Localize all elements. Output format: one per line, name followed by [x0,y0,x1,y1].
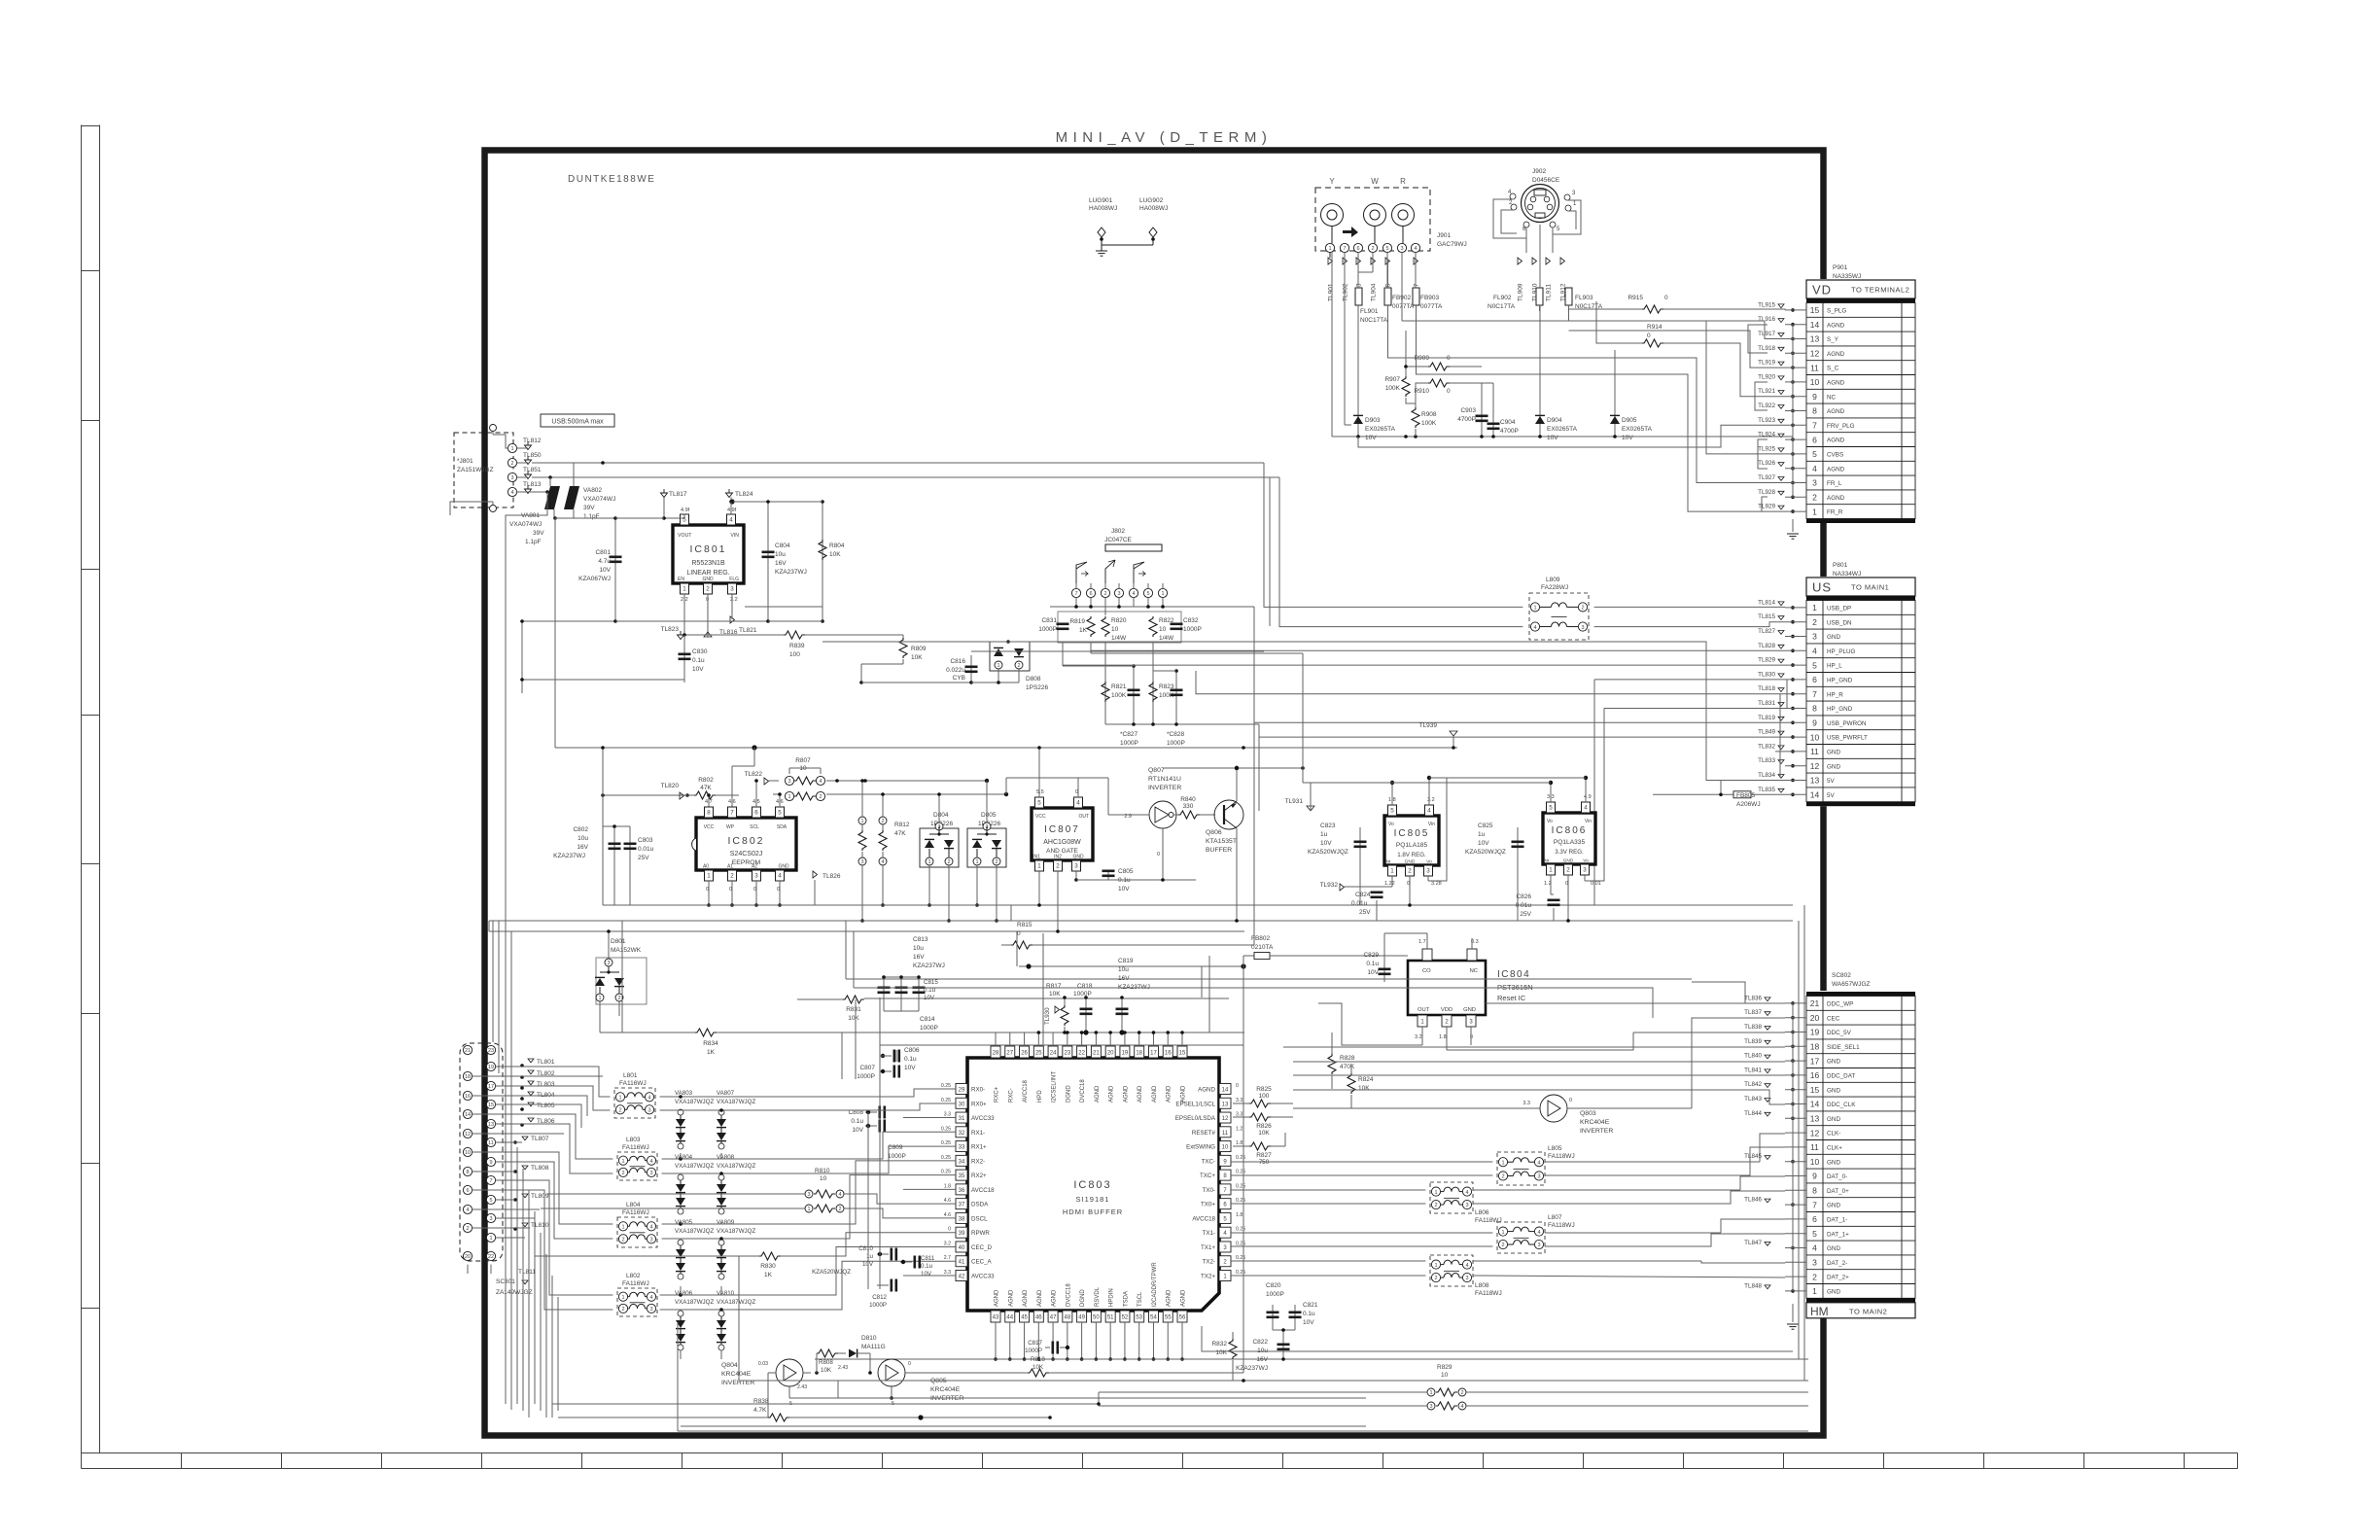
svg-text:R834: R834 [703,1040,718,1047]
svg-text:1000P: 1000P [1183,626,1202,633]
testpoints TL901-TL907 under J901 [1328,258,1333,264]
svg-text:2: 2 [1371,246,1374,252]
svg-text:5.5: 5.5 [1036,789,1044,795]
transistor Q804 KRC404E inverter [776,1359,803,1386]
wire R914 net to VD rows [1596,301,1642,343]
svg-text:21: 21 [1093,1051,1100,1057]
svg-text:10V: 10V [1622,435,1633,441]
svg-text:TL847: TL847 [1744,1240,1762,1246]
svg-text:WP: WP [726,824,735,830]
wire R907 R908 net [1405,331,1407,376]
wire left trunk lines to IC803 [546,1193,804,1195]
vertical 893 trunk [867,1112,869,1126]
svg-text:0.01: 0.01 [1591,881,1601,887]
svg-text:VA806: VA806 [675,1290,693,1297]
bottom title-block strip [82,1453,2238,1469]
svg-text:GAC79WJ: GAC79WJ [1437,241,1467,248]
svg-text:TL823: TL823 [661,626,680,633]
svg-text:C816: C816 [950,658,965,665]
svg-text:AGND: AGND [1827,380,1845,387]
svg-text:TXC+: TXC+ [1200,1172,1215,1179]
J902 outer pins [1510,193,1516,199]
vertical trunks right of J802 [1253,607,1255,945]
svg-text:23: 23 [1065,1051,1071,1057]
svg-text:TL833: TL833 [1758,757,1775,764]
svg-text:14: 14 [1222,1088,1229,1094]
svg-text:TL925: TL925 [1758,445,1775,452]
svg-text:VA802: VA802 [583,487,602,494]
capacitor C819 10u [1121,997,1123,1032]
svg-text:I2CSEL/INT: I2CSEL/INT [1052,1071,1058,1102]
svg-text:C818: C818 [1077,983,1093,990]
wire rail 1062 dots [1083,1030,1088,1034]
svg-text:1: 1 [598,996,601,1001]
svg-text:EN: EN [678,577,684,582]
svg-text:4700P: 4700P [1500,428,1519,435]
transistor Q806 KTA1535T buffer [1214,800,1243,829]
svg-text:1000P: 1000P [1073,991,1092,997]
svg-text:4.9: 4.9 [1584,794,1592,800]
svg-text:0.01u: 0.01u [1516,902,1532,909]
wire IC802 pin5 SDA [779,794,781,807]
svg-text:AGND: AGND [1023,1289,1029,1307]
svg-text:3: 3 [1429,1404,1432,1410]
svg-text:IC807: IC807 [1044,824,1080,835]
svg-text:45: 45 [1021,1315,1028,1321]
wire Q806 1398 rail verticals [1242,966,1244,1032]
resistor R910 0 [1428,379,1450,387]
svg-text:R840: R840 [1180,796,1196,803]
svg-text:10: 10 [1222,1145,1229,1151]
svg-text:2.43: 2.43 [797,1384,807,1390]
wire R807 outputs [826,780,987,782]
svg-text:GND: GND [1827,763,1840,770]
resistor R840 330 [1178,811,1200,819]
svg-text:IC803: IC803 [1073,1179,1111,1191]
svg-text:0077TA: 0077TA [1392,303,1415,310]
svg-text:1: 1 [1812,1286,1817,1296]
svg-text:4: 4 [881,859,884,865]
svg-text:16: 16 [1165,1051,1172,1057]
svg-text:NC: NC [1470,968,1478,974]
svg-text:39V: 39V [533,530,544,537]
wire D804 nets [938,794,940,822]
svg-text:1: 1 [1501,1160,1504,1166]
wire R829 nets [1099,1391,1426,1393]
svg-text:0.01u: 0.01u [1351,900,1368,907]
svg-text:R: R [1400,177,1406,186]
IC IC804 PST3615N reset IC [1408,961,1486,1015]
svg-text:0.25: 0.25 [1236,1170,1245,1175]
svg-text:RPWR: RPWR [971,1230,990,1237]
svg-text:AGND: AGND [1167,1085,1172,1102]
svg-text:19: 19 [1122,1051,1129,1057]
resistor R821 100K [1104,643,1106,724]
IC IC805 PQ1LA185 1.8V regulator [1384,816,1439,865]
svg-text:A206WJ: A206WJ [1736,801,1761,808]
svg-text:3: 3 [754,873,758,880]
svg-text:C809: C809 [888,1144,903,1151]
svg-text:Vo: Vo [1583,858,1589,864]
svg-text:USB_PWRON: USB_PWRON [1827,720,1867,727]
wire TXC pair to CLK rows [1231,1161,1492,1163]
svg-text:JC047CE: JC047CE [1104,537,1132,543]
svg-text:6: 6 [1812,1214,1817,1224]
svg-text:11: 11 [1810,1142,1819,1152]
svg-text:0: 0 [1647,332,1651,339]
capacitor C812 1000P [877,1284,889,1286]
svg-text:FL901: FL901 [1360,308,1379,315]
resistor R839 100 [684,634,784,636]
svg-text:25V: 25V [638,855,649,861]
svg-text:VXA187WJQZ: VXA187WJQZ [675,1299,714,1306]
svg-text:3.2: 3.2 [1427,797,1435,803]
svg-text:VA803: VA803 [675,1090,693,1097]
svg-text:TXC-: TXC- [1202,1158,1215,1165]
svg-text:8: 8 [1812,406,1817,416]
svg-text:1000P: 1000P [1038,626,1057,633]
svg-text:GND: GND [1405,859,1416,865]
wire choke outputs to IC803 RX pins [660,1089,956,1097]
svg-text:10K: 10K [1032,1364,1044,1371]
svg-text:TL826: TL826 [822,873,841,880]
svg-text:CLK+: CLK+ [1827,1145,1842,1152]
svg-text:47: 47 [1050,1315,1057,1321]
svg-text:TL807: TL807 [531,1136,549,1142]
wire USB_DP net [1264,463,1522,607]
wire IC803 left pin stubs [903,1117,956,1119]
rail 1472 [678,1430,1808,1432]
svg-text:0: 0 [908,1361,911,1367]
svg-text:FA116WJ: FA116WJ [622,1209,649,1216]
svg-text:HP_L: HP_L [1827,663,1842,670]
svg-text:8: 8 [1812,1186,1817,1196]
svg-text:FL903: FL903 [1575,295,1593,301]
svg-text:C832: C832 [1183,617,1199,624]
svg-text:AGND: AGND [1827,466,1845,472]
wire right-side verticals under tables [1798,921,1800,1359]
svg-text:FA116WJ: FA116WJ [619,1080,647,1087]
svg-text:R829: R829 [1437,1364,1452,1371]
vertical trunk x1340 [1302,653,1304,783]
svg-text:RX0-: RX0- [971,1087,985,1094]
svg-text:1: 1 [975,859,978,865]
svg-text:17: 17 [1810,1056,1820,1066]
capacitor C821 0.1u [1294,1305,1296,1330]
svg-text:RX1+: RX1+ [971,1144,987,1151]
svg-text:0.1u: 0.1u [692,657,705,664]
wire TX2 pair to DAT2 rows [1231,1260,1425,1262]
wire lower long rails [681,1425,1366,1427]
svg-text:9: 9 [1812,392,1817,402]
svg-text:20: 20 [465,1254,471,1260]
long verticals from top buses [1269,477,1271,626]
svg-text:2: 2 [881,819,884,824]
wire HP_GND2 line [1604,708,1785,710]
svg-text:2: 2 [1581,606,1584,612]
arrow marker in J901 [1343,227,1358,237]
svg-text:W: W [1371,177,1379,186]
svg-text:7: 7 [1812,421,1817,431]
svg-text:10V: 10V [1303,1319,1314,1326]
svg-text:1K: 1K [764,1272,773,1278]
resistor R828 470K [1328,1054,1336,1074]
svg-text:VXA074WJ: VXA074WJ [583,496,615,503]
capacitor C806 0.1u [895,1050,897,1062]
svg-text:2: 2 [466,1226,469,1232]
svg-text:C822: C822 [1252,1339,1268,1346]
svg-text:VXA187WJQZ: VXA187WJQZ [717,1299,755,1306]
capacitor C817 1000P [1045,1347,1050,1348]
connector table P801 US TO MAIN1 [1804,577,1917,806]
wire bottom rail 1438 [838,1397,1366,1399]
svg-text:11: 11 [1810,747,1819,756]
resistor R809 10K [899,638,907,658]
capacitor C818 1000P [1085,997,1087,1032]
svg-text:TL815: TL815 [1758,613,1775,620]
svg-text:IC802: IC802 [727,835,764,847]
svg-text:1000P: 1000P [1266,1291,1284,1298]
svg-text:FB805: FB805 [1736,792,1756,799]
svg-text:C820: C820 [1266,1282,1281,1289]
svg-text:1: 1 [1328,246,1331,252]
svg-text:0: 0 [729,887,732,892]
wire USB_PWRON line [1254,607,1785,722]
svg-text:D805: D805 [981,812,997,819]
ferrite FB903 0077TA [1413,288,1419,305]
svg-text:TO MAIN2: TO MAIN2 [1849,1307,1887,1315]
svg-text:2: 2 [838,1207,841,1212]
svg-text:10: 10 [1111,626,1119,633]
svg-text:TSDA: TSDA [1123,1291,1129,1307]
svg-text:1: 1 [1390,868,1394,875]
svg-text:IC805: IC805 [1394,828,1430,839]
varistor VA801 [544,486,560,509]
svg-text:HA008WJ: HA008WJ [1089,205,1117,212]
wire J802 pins to bus 624 [1050,606,1254,608]
svg-text:3: 3 [1812,1258,1817,1268]
capacitor C811 0.1u [900,1261,912,1263]
svg-text:23: 23 [488,1048,494,1054]
svg-text:2.43: 2.43 [838,1365,848,1371]
svg-text:C812: C812 [872,1294,887,1301]
wire HM gnd trunk [1792,1003,1794,1291]
svg-text:GND: GND [778,864,789,870]
svg-text:TL922: TL922 [1758,402,1775,409]
svg-text:1u: 1u [866,1253,873,1260]
svg-text:3: 3 [1812,632,1817,642]
svg-text:0: 0 [753,887,756,892]
svg-text:1.8: 1.8 [944,1183,951,1189]
svg-text:1.7: 1.7 [1418,939,1426,945]
svg-text:L804: L804 [626,1202,641,1208]
svg-text:Q806: Q806 [1206,829,1222,836]
svg-text:4: 4 [1427,808,1431,815]
svg-text:Vo: Vo [1426,859,1432,865]
svg-text:R907: R907 [1384,376,1400,383]
svg-text:TL839: TL839 [1744,1038,1762,1045]
svg-text:10V: 10V [1547,435,1558,441]
svg-text:1: 1 [1501,1230,1504,1236]
svg-text:0.25: 0.25 [1236,1198,1245,1204]
svg-text:12: 12 [1222,1116,1229,1122]
svg-text:4.7: 4.7 [705,799,713,805]
svg-text:1: 1 [927,859,930,865]
svg-text:5: 5 [1390,808,1394,815]
connector table SC802 HM TO MAIN2 [1804,991,1917,1314]
svg-text:N0C17TA: N0C17TA [1487,303,1516,310]
svg-text:GND: GND [1827,1159,1840,1166]
svg-text:D808: D808 [1026,676,1041,682]
svg-text:7: 7 [1343,246,1346,252]
svg-text:AGND: AGND [1137,1085,1143,1102]
board outline frame [485,151,1824,1436]
svg-text:R825: R825 [1256,1086,1272,1093]
svg-text:TL824: TL824 [735,491,753,498]
wire IC803 top feed verticals [1208,956,1210,1032]
svg-text:C805: C805 [1118,868,1134,875]
IC803 left pins 29-42 [956,1084,967,1095]
svg-text:0: 0 [1470,1034,1473,1040]
svg-text:Vin: Vin [1585,819,1592,824]
svg-text:1: 1 [860,819,863,824]
svg-text:R807: R807 [795,757,811,764]
svg-text:VXA187WJQZ: VXA187WJQZ [675,1163,714,1170]
wire IC802 pin6 SCL to TL822 [755,781,757,807]
svg-text:DAT_2+: DAT_2+ [1827,1275,1849,1281]
svg-text:21: 21 [465,1048,471,1054]
vertical trunk x503 [488,921,490,931]
svg-text:C825: C825 [1478,822,1493,829]
svg-text:8: 8 [707,810,711,817]
svg-text:TL810: TL810 [531,1222,549,1229]
svg-text:3: 3 [647,1108,650,1114]
svg-text:D801: D801 [611,938,626,945]
svg-text:3: 3 [1465,1276,1468,1281]
capacitor C807 1000P [880,1070,892,1072]
svg-text:C804: C804 [775,542,790,549]
diode D904 EX0265TA [1539,305,1541,437]
svg-text:C817: C817 [1028,1340,1042,1347]
svg-text:0: 0 [706,887,709,892]
svg-text:3: 3 [787,779,790,785]
svg-text:DAT_0-: DAT_0- [1827,1173,1847,1180]
capacitor C810 1u [877,1253,889,1255]
svg-text:GND: GND [1827,634,1840,641]
svg-text:C802: C802 [573,826,588,833]
svg-text:TL809: TL809 [531,1193,549,1200]
svg-text:0: 0 [1565,881,1568,887]
svg-text:10K: 10K [1358,1085,1370,1092]
resistor R826 10K [1233,1116,1249,1118]
wire gnd bus under R821 R823 [1105,723,1259,725]
svg-text:TL817: TL817 [669,491,687,498]
svg-text:A0: A0 [703,864,709,870]
svg-text:3: 3 [1400,246,1403,252]
wire Q804 base line [768,1372,776,1374]
svg-text:FL902: FL902 [1493,295,1512,301]
wire IC805 pins [1391,783,1393,805]
wire gnd bus under IC803 [815,1358,1808,1360]
J902 wiring box [1493,199,1526,238]
svg-text:D810: D810 [861,1335,877,1342]
svg-text:P801: P801 [1833,562,1848,569]
svg-text:AVCC33: AVCC33 [971,1115,995,1122]
svg-text:HPDIN: HPDIN [1109,1288,1115,1307]
wire HP_PLUG long line [1091,643,1785,650]
wire AGND trunk at VD table [1792,325,1794,498]
svg-text:4700P: 4700P [1457,416,1476,423]
svg-text:0: 0 [948,1227,951,1233]
svg-text:10u: 10u [577,835,588,842]
svg-text:11: 11 [488,1140,494,1146]
svg-text:9: 9 [1812,1172,1817,1181]
wire 800 rail [1005,778,1007,794]
svg-text:4.7K: 4.7K [753,1407,767,1414]
wire mid i2c pair to right [846,978,1692,980]
svg-text:2: 2 [1812,1272,1817,1281]
IC803 right pins 14-1 [1219,1084,1231,1095]
wire rails 1080-1086 [880,1055,892,1057]
svg-text:HA008WJ: HA008WJ [1139,205,1168,212]
svg-text:10u: 10u [913,945,924,952]
svg-text:1: 1 [807,1207,810,1212]
svg-text:S_PLG: S_PLG [1827,308,1846,315]
svg-text:TX0-: TX0- [1203,1187,1215,1194]
svg-text:1.2: 1.2 [1236,1126,1242,1132]
svg-text:A2: A2 [752,864,757,870]
svg-text:5: 5 [778,810,782,817]
svg-text:1: 1 [707,873,711,880]
wire DDC_DAT DDC_CLK lines [1293,1074,1785,1076]
resistor R915 0 [1642,305,1663,313]
testpoint TL826 [813,871,818,878]
J802 pin circles [1071,588,1080,597]
wire D805 nets [986,781,988,822]
testpoints TL909-TL912 [1518,258,1522,264]
svg-text:2: 2 [947,859,950,865]
svg-text:4.6: 4.6 [944,1198,951,1204]
svg-text:10K: 10K [1215,1349,1227,1356]
svg-text:HP_GND: HP_GND [1827,706,1853,713]
svg-text:TL923: TL923 [1758,417,1775,424]
connector SC801 outline [460,1043,503,1261]
svg-text:4: 4 [649,1159,652,1165]
svg-text:3: 3 [1581,625,1584,631]
svg-text:L805: L805 [1548,1145,1562,1152]
svg-text:3: 3 [1117,591,1120,597]
svg-text:Vo: Vo [1388,822,1394,827]
svg-text:NA334WJ: NA334WJ [1833,571,1861,577]
svg-text:19: 19 [488,1065,494,1070]
wire IC804 pins [1426,933,1428,949]
svg-text:0.25: 0.25 [941,1140,951,1146]
wire IC802 bottom pins to gnd bus [708,881,710,905]
svg-text:GND: GND [1827,1116,1840,1123]
IC IC806 PQ1LA335 3.3V regulator [1543,813,1595,864]
svg-text:TO TERMINAL2: TO TERMINAL2 [1851,286,1909,295]
svg-text:37: 37 [959,1203,965,1208]
wire vertical x640 lower [621,921,623,1032]
svg-text:2: 2 [618,1108,621,1114]
svg-text:10K: 10K [1258,1130,1270,1137]
svg-text:AGND: AGND [1123,1085,1129,1102]
svg-text:R830: R830 [760,1263,776,1270]
svg-text:1.2: 1.2 [1544,881,1552,887]
rail 1420 [739,1380,1808,1382]
svg-text:2: 2 [1434,1276,1437,1281]
resistor R802 47K [603,794,694,796]
